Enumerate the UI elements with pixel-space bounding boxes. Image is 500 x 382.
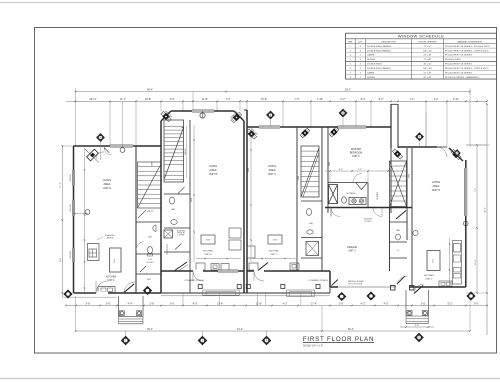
unit A sink counter on bottom wall: [98, 287, 115, 293]
unit B closet pole: [166, 244, 168, 255]
svg-text:UNIT C: UNIT C: [352, 155, 360, 158]
svg-text:3'x6': 3'x6': [433, 258, 435, 262]
porch C steps: [287, 290, 315, 296]
unit D corner entry door arc: [437, 147, 447, 157]
unit A outer walls: [73, 146, 75, 293]
svg-text:11'-2": 11'-2": [475, 259, 477, 265]
unit B kitchen wall appliances: [229, 228, 241, 238]
svg-text:11'-6": 11'-6": [256, 302, 262, 305]
party wall B/C: [243, 121, 245, 293]
svg-text:10'-8": 10'-8": [145, 98, 151, 101]
stair tower shaft walls: [397, 104, 399, 148]
unit B lav door: [178, 187, 185, 194]
table data rows: [346, 47, 497, 49]
porch posts: [198, 285, 202, 289]
svg-text:2'-8": 2'-8": [150, 302, 155, 305]
svg-text:4'-2": 4'-2": [434, 98, 439, 101]
svg-text:AREA: AREA: [103, 182, 110, 186]
right vertical dimension lines: [476, 145, 478, 293]
svg-text:9'-4": 9'-4": [60, 258, 62, 263]
unit C lav: [301, 200, 322, 202]
unit D right thin line: [466, 144, 490, 146]
svg-text:3050 SH: 3050 SH: [70, 204, 72, 212]
unit B entry door leaf: [174, 262, 187, 271]
svg-text:MANUFACTURER/MODEL: MANUFACTURER/MODEL: [457, 40, 483, 43]
svg-text:COVERED PORCH: COVERED PORCH: [184, 280, 204, 282]
unit B top wall window: [192, 110, 214, 113]
unit D right wall: [465, 160, 467, 287]
unit C stair corner window: [300, 128, 310, 138]
unit A hall door arc into kitchen: [136, 242, 144, 251]
svg-text:9'-0": 9'-0": [415, 325, 419, 327]
unit A entry door opening: [96, 292, 108, 295]
unit A left wall window marker: [85, 210, 90, 215]
svg-text:17'-4": 17'-4": [60, 182, 62, 188]
unit A front step line: [62, 296, 117, 298]
closet door arcs bottom of suite: [373, 208, 382, 217]
unit B bottom wall window: [218, 270, 238, 273]
section diamonds along porch line: [64, 290, 73, 299]
svg-text:UNIT C: UNIT C: [268, 172, 277, 176]
stair B riser dim text: [186, 126, 188, 178]
svg-text:6'-8": 6'-8": [170, 98, 175, 101]
svg-text:11'-8": 11'-8": [202, 98, 208, 101]
svg-text:4'-4": 4'-4": [128, 302, 133, 305]
overall top dimension line 98-8: [76, 91, 471, 93]
unit D stair: [390, 161, 407, 207]
unit D island: [427, 251, 440, 271]
svg-text:PELLA LIFESTYLE SERIES - (DOUB: PELLA LIFESTYLE SERIES - (DOUBLE UNIT): [445, 45, 490, 48]
svg-text:M. BATH: M. BATH: [347, 192, 356, 195]
unit C living/stair wall: [296, 127, 298, 271]
svg-text:REF: REF: [348, 41, 353, 43]
unit A closet: [136, 253, 161, 255]
unit D kitchen counters: [453, 241, 462, 285]
svg-text:UNIT C: UNIT C: [348, 250, 356, 253]
svg-text:DOUBLE HUNG: DOUBLE HUNG: [367, 64, 382, 66]
svg-text:3'-8": 3'-8": [86, 302, 91, 305]
svg-text:4'-2": 4'-2": [283, 302, 288, 305]
master bedroom C walls: [327, 127, 329, 213]
unit B bottom interior dim: [196, 258, 241, 260]
unit C top wall: [247, 126, 391, 128]
svg-text:50'-4": 50'-4": [345, 88, 351, 91]
unit C washer box: [306, 242, 319, 256]
unit D corner window: [449, 148, 463, 161]
svg-text:PELLA LIFESTYLE SERIES - (TRIP: PELLA LIFESTYLE SERIES - (TRIPLE UNIT): [445, 49, 489, 52]
svg-text:11'-7": 11'-7": [120, 98, 126, 101]
unit C porch entry door: [254, 270, 264, 273]
svg-text:2'-6": 2'-6": [106, 302, 111, 305]
unit A corner fireplace: [87, 149, 99, 161]
svg-text:5'-2": 5'-2": [448, 302, 453, 305]
svg-text:ROUGH OPENING: ROUGH OPENING: [419, 41, 437, 43]
master bath door arc: [353, 174, 362, 183]
svg-text:3'-0": 3'-0": [339, 169, 343, 171]
unit C bottom interior dim: [253, 258, 296, 260]
svg-text:AREA: AREA: [209, 168, 216, 172]
unit B top wall: [171, 110, 234, 112]
svg-text:UNIT B: UNIT B: [209, 172, 218, 176]
svg-text:16'-9": 16'-9": [261, 98, 267, 101]
unit A kitchen appliances: [88, 244, 100, 261]
unit B left wall: [160, 121, 162, 293]
svg-text:3'-8": 3'-8": [421, 302, 426, 305]
unit C closet: [301, 257, 322, 259]
svg-text:LAV: LAV: [396, 229, 401, 232]
svg-text:50'-4": 50'-4": [348, 328, 354, 331]
unit B washer/dryer box: [164, 230, 173, 238]
svg-text:UNIT C: UNIT C: [270, 254, 278, 256]
unit A lav door swing: [138, 210, 146, 218]
master bath toilet: [342, 197, 347, 203]
unit D lav: [390, 221, 408, 223]
bottom overall dimension line 98-8: [76, 330, 471, 332]
svg-text:9'-11": 9'-11": [453, 98, 459, 101]
master bedroom corner window: [329, 127, 339, 137]
svg-text:5'x5': 5'x5': [148, 259, 152, 261]
svg-text:LIVING: LIVING: [432, 180, 441, 184]
svg-text:PELLA LIFESTYLE SERIES - (TRIP: PELLA LIFESTYLE SERIES - (TRIPLE UNIT): [445, 67, 489, 70]
svg-text:UNIT A: UNIT A: [103, 186, 112, 190]
unit B top-left corner window: [161, 111, 171, 121]
unit B interior dim line: [193, 125, 195, 262]
svg-text:72" x 62": 72" x 62": [424, 46, 432, 48]
extension line x426: [425, 112, 427, 146]
bottom section diamonds: [121, 336, 130, 345]
svg-text:KITCHEN: KITCHEN: [269, 251, 279, 253]
svg-text:KITCHEN: KITCHEN: [203, 251, 213, 253]
porch extension lines: [182, 293, 184, 306]
svg-text:6'-3": 6'-3": [361, 98, 366, 101]
porch steps edge: [329, 287, 331, 293]
svg-text:QTY.: QTY.: [358, 41, 363, 43]
marker diamond above unit A: [96, 133, 104, 141]
porch step edge: [161, 295, 330, 297]
svg-text:3'-6": 3'-6": [474, 302, 479, 305]
svg-text:LIVING: LIVING: [103, 178, 112, 182]
window schedule table: [346, 33, 497, 79]
window diamond unit D top: [415, 133, 423, 141]
unit D water heater: [413, 230, 418, 235]
unit A left wall windows: [72, 170, 75, 186]
svg-text:48'-4": 48'-4": [147, 328, 153, 331]
svg-text:DOUBLE HUNG (PAIRED): DOUBLE HUNG (PAIRED): [367, 67, 391, 70]
svg-text:7'-4": 7'-4": [226, 98, 231, 101]
svg-text:DOUBLE HUNG (PAIRED): DOUBLE HUNG (PAIRED): [367, 45, 391, 48]
garage bottom wall + door: [330, 286, 412, 288]
svg-text:3'-8": 3'-8": [339, 302, 344, 305]
svg-text:5'-2": 5'-2": [341, 98, 346, 101]
svg-text:2868: 2868: [298, 176, 300, 180]
covered porch front edge: [161, 292, 330, 294]
unit B bottom wall: [161, 270, 244, 272]
unit D hall door leaf: [396, 211, 406, 220]
unit A front entry door leaf: [124, 284, 134, 293]
svg-text:AREA: AREA: [268, 168, 275, 172]
unit C bottom wall: [247, 270, 330, 272]
svg-text:SLIDING: SLIDING: [367, 59, 375, 61]
svg-text:CLOSET: CLOSET: [146, 262, 154, 264]
unit A stoop: [118, 296, 120, 316]
svg-text:8'-2": 8'-2": [379, 98, 384, 101]
unit B top-right corner window: [234, 111, 244, 121]
master bath bifold door: [356, 183, 367, 190]
garage entry door arc: [331, 208, 340, 217]
segmented top dimension line: [66, 100, 487, 102]
svg-text:17'-4": 17'-4": [311, 302, 317, 305]
unit C stair wall: [321, 127, 323, 271]
svg-text:108" x 48": 108" x 48": [423, 68, 432, 70]
master bath vanity: [349, 198, 366, 205]
unit B stair (hatched): [164, 120, 184, 182]
unit D closet: [390, 257, 408, 259]
master bath top wall: [328, 182, 368, 184]
svg-text:LAV: LAV: [309, 222, 314, 225]
unit D entry door gap + leaf: [396, 286, 409, 289]
master suite interior dim: [325, 170, 390, 172]
garage side door leaf: [332, 280, 339, 286]
unit A / stair hall wall: [135, 146, 137, 293]
window marker circle unit B: [200, 113, 205, 118]
unit B closet door leaf: [175, 244, 182, 250]
svg-text:SLIDING: SLIDING: [367, 77, 375, 79]
svg-text:3'x6': 3'x6': [114, 258, 116, 263]
unit B island: [201, 235, 215, 244]
unit B porch entry door: [193, 270, 203, 273]
svg-text:CL.: CL.: [396, 250, 400, 252]
svg-text:14R UP: 14R UP: [147, 211, 154, 213]
drawing border frame: [35, 28, 497, 354]
stair D top corner window: [392, 149, 402, 159]
unit D stoop: [405, 290, 407, 316]
svg-text:2868: 2868: [191, 198, 193, 202]
svg-text:72" x 48": 72" x 48": [424, 59, 432, 61]
svg-text:UNIT A: UNIT A: [107, 279, 115, 282]
sheet top edge line: [0, 2, 500, 4]
svg-text:7'-6": 7'-6": [358, 169, 362, 171]
svg-text:LIVING: LIVING: [209, 164, 218, 168]
svg-text:UNIT D: UNIT D: [432, 188, 441, 192]
svg-text:2868: 2868: [248, 168, 250, 172]
unit A lav toilet: [147, 247, 152, 254]
unit A kitchen island: [110, 248, 122, 272]
svg-text:36" x 62": 36" x 62": [424, 64, 432, 66]
porch B steps: [203, 290, 239, 295]
svg-text:2868: 2868: [409, 174, 411, 178]
svg-text:DOUBLE HUNG (PAIRED): DOUBLE HUNG (PAIRED): [367, 49, 391, 52]
left vertical dimension line: [61, 146, 63, 297]
svg-text:CASEM.: CASEM.: [367, 54, 375, 57]
unit C interior dim line: [250, 133, 252, 262]
svg-text:24" x 48": 24" x 48": [424, 55, 432, 57]
svg-text:LAV: LAV: [171, 208, 176, 211]
svg-text:SEE ELE. SCHED.: SEE ELE. SCHED.: [348, 281, 365, 283]
svg-text:UNIT D: UNIT D: [425, 279, 433, 281]
svg-text:CASEM.: CASEM.: [367, 71, 375, 74]
svg-text:7'-8": 7'-8": [295, 98, 300, 101]
svg-text:PELLA SLIDING: PELLA SLIDING: [445, 58, 461, 61]
svg-text:UNIT B: UNIT B: [204, 254, 212, 256]
svg-text:ABOVE: ABOVE: [107, 236, 114, 239]
svg-text:16'-11": 16'-11": [89, 98, 96, 101]
unit B lav: [164, 193, 190, 195]
closet wall between bath and stair D: [367, 183, 369, 208]
svg-text:7'-2": 7'-2": [475, 188, 477, 193]
svg-text:WINDOW SCHEDULE: WINDOW SCHEDULE: [398, 34, 444, 39]
svg-text:SCALE 1/4" = 1'-0": SCALE 1/4" = 1'-0": [303, 344, 323, 347]
unit A small interior dim: [74, 213, 89, 215]
unit D bottom wall: [412, 286, 466, 288]
svg-text:30/60: 30/60: [206, 240, 211, 242]
unit C stair: [301, 146, 319, 197]
svg-text:30/60: 30/60: [273, 240, 278, 242]
svg-text:3'-6": 3'-6": [170, 302, 175, 305]
svg-text:LAV: LAV: [148, 236, 153, 239]
unit C left wall: [246, 127, 248, 271]
unit D front entry door leaf: [414, 286, 423, 294]
svg-text:3050 SH: 3050 SH: [70, 174, 72, 182]
svg-text:16/7 O.H. DOOR: 16/7 O.H. DOOR: [348, 283, 363, 285]
unit C top-left corner window: [246, 127, 258, 139]
unit D entry recess piers: [391, 286, 396, 291]
unit A lav sink: [153, 225, 156, 231]
bottom segmented dimension line: [66, 305, 487, 307]
svg-text:16R UP: 16R UP: [185, 148, 187, 155]
suite bottom wall / garage top: [325, 207, 412, 209]
unit A interior dim line: [84, 148, 86, 293]
svg-text:48'-4": 48'-4": [147, 88, 153, 91]
svg-text:2868: 2868: [329, 162, 331, 166]
unit A hall door arc: [104, 148, 112, 156]
svg-text:4'-2": 4'-2": [361, 302, 366, 305]
svg-text:2868: 2868: [152, 162, 154, 166]
unit A top wall window marker circle: [120, 148, 125, 153]
unit D interior dim line: [449, 238, 451, 285]
unit C top wall windows: [259, 126, 280, 129]
svg-text:17'-4": 17'-4": [217, 302, 223, 305]
svg-text:PELLA LIFESTYLE SERIES: PELLA LIFESTYLE SERIES: [445, 71, 472, 74]
svg-text:7'-10": 7'-10": [317, 98, 323, 101]
svg-text:CLOSET: CLOSET: [178, 235, 185, 237]
svg-text:PELLA 250 SERIES - (BASEMENT): PELLA 250 SERIES - (BASEMENT): [445, 76, 480, 79]
svg-text:4'-0": 4'-0": [384, 302, 389, 305]
window diamond above master bedroom: [339, 109, 347, 117]
svg-text:36'-2": 36'-2": [485, 207, 487, 213]
stair D wall: [406, 148, 408, 240]
svg-text:AREA: AREA: [432, 184, 439, 188]
unit B lav sink: [171, 220, 177, 225]
svg-text:7'-1": 7'-1": [410, 98, 415, 101]
unit A lav: [136, 221, 161, 223]
unit C island: [268, 235, 282, 244]
svg-text:KITCHEN: KITCHEN: [424, 275, 434, 277]
unit A closet door leaf: [140, 266, 146, 272]
sheet bottom edge line: [0, 378, 500, 380]
svg-text:COVERED PORCH: COVERED PORCH: [308, 280, 328, 282]
garage side walls: [411, 148, 413, 287]
unit D top thin line: [398, 146, 437, 148]
svg-text:KITCHEN: KITCHEN: [106, 277, 116, 279]
svg-text:FIRST FLOOR PLAN: FIRST FLOOR PLAN: [303, 336, 374, 343]
master bath tub: [329, 185, 338, 204]
unit D bottom counter w sink: [439, 281, 452, 287]
svg-text:108" x 62": 108" x 62": [423, 50, 432, 52]
svg-text:60" x 48": 60" x 48": [424, 77, 432, 79]
svg-text:CLOSET: CLOSET: [377, 191, 379, 200]
unit D right wall window marker: [464, 221, 469, 226]
svg-text:24" x 36": 24" x 36": [424, 72, 432, 74]
svg-text:DESCRIPTION: DESCRIPTION: [381, 41, 396, 43]
svg-text:PELLA LIFESTYLE SERIES: PELLA LIFESTYLE SERIES: [445, 54, 472, 57]
svg-text:24'-2": 24'-2": [237, 328, 243, 331]
svg-text:CLOSET: CLOSET: [364, 221, 372, 223]
svg-text:LIVING: LIVING: [268, 164, 277, 168]
unit B closet: [164, 251, 190, 253]
svg-text:4'-0": 4'-0": [193, 302, 198, 305]
window diamond above unit C: [266, 111, 274, 119]
svg-text:W.H.: W.H.: [147, 279, 152, 281]
unit A top wall window: [110, 145, 133, 148]
svg-text:3050 SH: 3050 SH: [70, 251, 72, 259]
unit A stair: [138, 162, 162, 208]
svg-text:PELLA LIFESTYLE SERIES: PELLA LIFESTYLE SERIES: [445, 63, 472, 66]
